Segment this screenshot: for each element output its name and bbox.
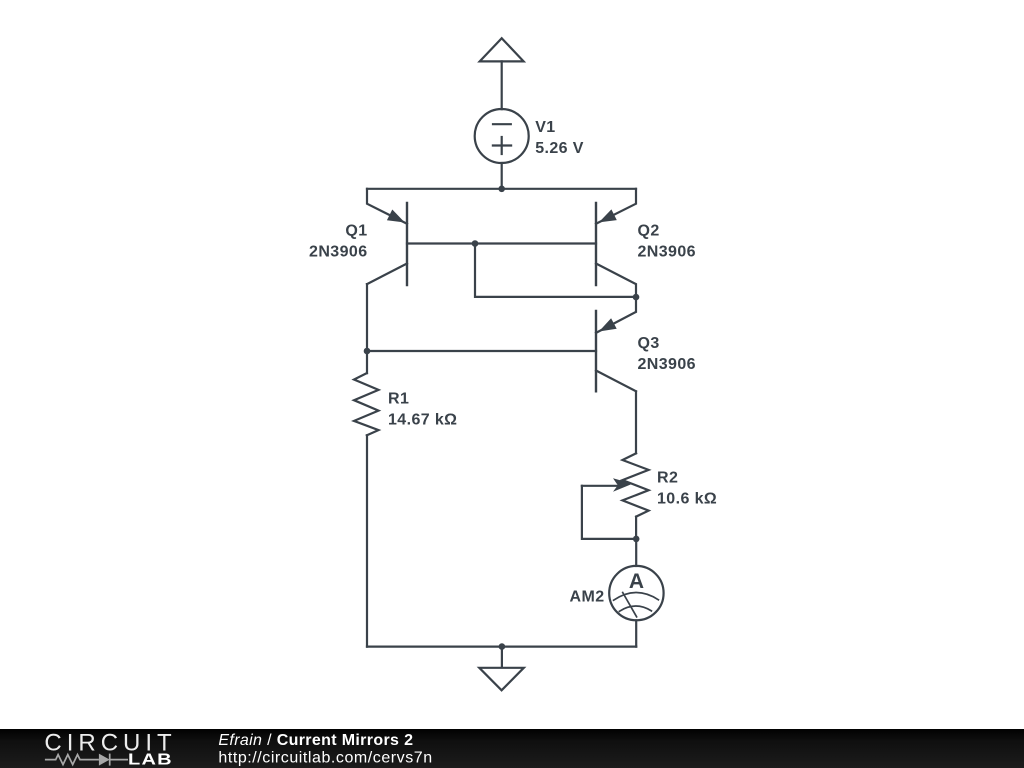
footer bar <box>0 729 1024 768</box>
ammeter AM2 <box>609 566 663 620</box>
wire Q3 collector to R2 <box>635 391 637 453</box>
voltage source V1 <box>475 109 529 163</box>
junction at Q2 collector / Q3 emitter <box>633 294 640 301</box>
svg-text:5.26 V: 5.26 V <box>535 140 584 157</box>
wire R1 to bottom rail <box>366 435 368 646</box>
svg-text:14.67 kΩ: 14.67 kΩ <box>388 411 457 428</box>
svg-text:Q1: Q1 <box>345 223 367 240</box>
svg-text:Efrain / Current Mirrors 2: Efrain / Current Mirrors 2 <box>218 732 413 749</box>
power flag VCC <box>480 38 524 61</box>
wire Q3 base to left column <box>367 350 596 352</box>
svg-text:R1: R1 <box>388 390 409 407</box>
wire Q1 collector down to R1 <box>366 284 368 373</box>
junction at ground <box>499 643 506 650</box>
wire top rail <box>367 188 636 190</box>
transistor Q3 <box>596 297 636 391</box>
svg-text:AM2: AM2 <box>570 588 605 605</box>
potentiometer R2 (rheostat) <box>582 453 649 516</box>
wire R2 wiper loop to bottom terminal <box>582 486 636 539</box>
svg-text:2N3906: 2N3906 <box>638 356 696 373</box>
label Q3 2N3906 <box>638 335 696 373</box>
label Q2 2N3906 <box>638 223 696 261</box>
wire base bus Q1-Q2 <box>407 242 596 244</box>
svg-text:10.6 kΩ: 10.6 kΩ <box>657 490 717 507</box>
svg-text:R2: R2 <box>657 469 678 486</box>
wire base bus to Q2 collector node <box>475 244 636 297</box>
junction on base bus <box>472 240 479 247</box>
junction on left column <box>364 348 371 355</box>
transistor Q2 <box>596 189 636 297</box>
svg-text:2N3906: 2N3906 <box>309 244 367 261</box>
transistor Q1 <box>367 189 407 285</box>
svg-text:2N3906: 2N3906 <box>638 244 696 261</box>
label R1 14.67 kOhm <box>388 390 457 428</box>
svg-text:Q2: Q2 <box>638 223 660 240</box>
junction on top rail <box>498 186 505 193</box>
svg-text:V1: V1 <box>535 119 555 136</box>
CircuitLab logo squiggle (resistor-diode) <box>45 754 128 766</box>
wire R2 to ammeter <box>635 539 637 566</box>
svg-text:A: A <box>629 570 644 593</box>
junction R2 bottom terminal <box>633 536 640 543</box>
ground <box>479 647 524 691</box>
label V1 5.26 V <box>535 119 584 157</box>
svg-text:Q3: Q3 <box>638 335 660 352</box>
wire VCC flag to V1 <box>501 61 503 109</box>
wire V1 to top rail <box>501 163 503 189</box>
svg-text:http://circuitlab.com/cervs7n: http://circuitlab.com/cervs7n <box>218 750 432 767</box>
wire ammeter to bottom rail <box>635 620 637 646</box>
svg-text:LAB: LAB <box>128 750 173 768</box>
label Q1 2N3906 <box>309 223 367 261</box>
wire bottom rail <box>367 645 636 647</box>
label R2 10.6 kOhm <box>657 469 717 507</box>
resistor R1 <box>354 373 379 435</box>
wire R2 bottom <box>635 517 637 539</box>
